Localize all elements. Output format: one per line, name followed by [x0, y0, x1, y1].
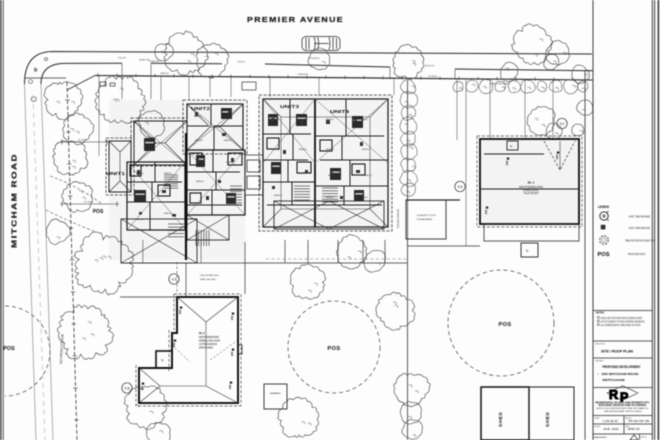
party wall units 1-2 — [185, 133, 187, 260]
svg-text:TREE PROTECTION ZONE (TPZ): TREE PROTECTION ZONE (TPZ) — [625, 239, 655, 242]
svg-text:BED: BED — [364, 175, 373, 177]
svg-text:MITCHAM ROAD: MITCHAM ROAD — [10, 153, 19, 248]
svg-text:BED: BED — [136, 219, 145, 221]
rooms unit 1 partitions — [127, 181, 182, 183]
svg-text:V.: V. — [526, 249, 529, 253]
logo — [607, 386, 638, 400]
wing upper-left — [131, 118, 187, 166]
svg-text:SHED: SHED — [498, 412, 504, 427]
svg-text:HW: HW — [178, 309, 182, 314]
svg-text:HW: HW — [230, 351, 234, 356]
svg-text:BED: BED — [299, 149, 308, 151]
trees mid yard — [337, 235, 367, 269]
svg-text:POS: POS — [598, 252, 611, 258]
svg-text:4.5: 4.5 — [172, 277, 177, 281]
paving edge dashed continuation — [266, 262, 407, 264]
block B roof inset — [263, 99, 281, 117]
shed east 1 — [481, 387, 529, 440]
svg-text:ETE DRIVE EX: ETE DRIVE EX — [309, 58, 320, 60]
crossover edges — [121, 63, 123, 99]
dark fittings block A — [137, 170, 140, 175]
meter box — [242, 82, 256, 90]
rooms unit 3 partitions — [263, 133, 311, 135]
BL1 mid wall — [480, 188, 579, 190]
svg-text:HW: HW — [555, 154, 559, 159]
stairs unit 2 upper — [230, 185, 242, 187]
tree ref circles — [557, 118, 567, 128]
unit 2 rear rooms block — [187, 150, 245, 215]
porch link to block B — [245, 155, 263, 195]
svg-text:HW: HW — [228, 384, 232, 389]
hedge shrubs along boundary — [453, 82, 463, 92]
dark beds block A — [144, 138, 155, 151]
svg-text:CROSSOVER: CROSSOVER — [237, 62, 245, 64]
car on road — [302, 37, 340, 51]
svg-text:UNIT1: UNIT1 — [106, 171, 126, 176]
svg-text:WEATHERBOARD: WEATHERBOARD — [199, 336, 219, 339]
svg-text:PALING FENCE: PALING FENCE — [396, 209, 400, 228]
BL1 rear V box — [521, 243, 538, 257]
block B walls — [263, 99, 388, 227]
east boundary — [584, 70, 586, 440]
fence to existing house — [408, 245, 481, 247]
svg-text:9.0: 9.0 — [560, 122, 565, 126]
svg-text:MITCHAM: MITCHAM — [603, 378, 626, 382]
svg-text:TP-02 OF 09: TP-02 OF 09 — [628, 419, 650, 423]
svg-text:9.8: 9.8 — [458, 185, 463, 189]
svg-text:DWELLING AND: DWELLING AND — [199, 340, 220, 343]
svg-text:DEMOLISHED: DEMOLISHED — [199, 347, 213, 349]
svg-text:500 MITCHAM ROAD: 500 MITCHAM ROAD — [602, 372, 640, 376]
tree near car — [308, 48, 330, 70]
svg-text:POS: POS — [3, 346, 15, 352]
hedge along internal fence — [400, 79, 415, 93]
svg-text:OSED SETBACK BOU: OSED SETBACK BOU — [200, 274, 219, 277]
BL1 porch slab — [484, 224, 579, 241]
svg-text:HW: HW — [140, 385, 144, 390]
svg-text:M.B. 4/23: M.B. 4/23 — [604, 427, 620, 431]
BL1 walls — [480, 139, 579, 224]
svg-text:BED: BED — [195, 140, 204, 142]
north site boundary — [95, 76, 592, 81]
svg-text:PRIVATE OPEN SPACE: PRIVATE OPEN SPACE — [628, 253, 645, 256]
svg-text:TELEPHONE 9873 0000: TELEPHONE 9873 0000 — [604, 411, 643, 413]
svg-text:REA LAWN CONCR: REA LAWN CONCR — [139, 59, 150, 62]
tree on boundary mid — [393, 44, 424, 79]
svg-text:SUITE 4 500 WHITEHORSE ROAD MI: SUITE 4 500 WHITEHORSE ROAD MITCHAM VIC — [597, 407, 650, 410]
svg-text:NOTES: NOTES — [596, 311, 604, 315]
BL2 eave dashed — [136, 294, 241, 406]
west boundary fence — [67, 82, 77, 440]
building tone wash — [109, 100, 245, 260]
svg-text:V.: V. — [161, 359, 164, 363]
svg-text:BED: BED — [326, 149, 335, 151]
paving edge below block A — [121, 262, 266, 264]
roof lines over unit1/2 rooms — [127, 162, 186, 230]
svg-text:BED: BED — [326, 197, 335, 199]
svg-text:BL.1: BL.1 — [528, 181, 535, 185]
svg-text:SITE / ROOF PLAN: SITE / ROOF PLAN — [601, 349, 633, 354]
roof diagonals over block B rooms — [263, 99, 315, 163]
rooms unit 2 partitions — [187, 125, 208, 127]
svg-text:LAYOUT SUBJECT TO FINAL WORKIN: LAYOUT SUBJECT TO FINAL WORKING DRAWINGS — [601, 321, 645, 324]
BL1 internal line top — [484, 153, 544, 155]
BL1 eave dashed — [477, 136, 582, 227]
dimension witness lines — [98, 76, 100, 157]
wet rooms unit 2 — [190, 153, 202, 165]
mitcham road kerbs — [25, 84, 37, 440]
svg-text:BED: BED — [226, 162, 235, 164]
page border left — [0, 0, 2, 440]
svg-text:R: R — [609, 388, 618, 402]
svg-text:HW: HW — [230, 315, 234, 320]
svg-text:AMENDMENT: AMENDMENT — [594, 436, 608, 439]
svg-text:BL.2: BL.2 — [199, 331, 205, 335]
BL1 valley dashed — [544, 141, 575, 170]
road kerb upper (Premier Avenue) — [25, 52, 593, 85]
rooms unit 4 partitions — [315, 135, 384, 137]
BL2 chimney — [238, 345, 242, 354]
svg-text:PROJECT: PROJECT — [596, 361, 605, 363]
svg-text:EXIST. TREE RETAINED: EXIST. TREE RETAINED — [629, 215, 650, 218]
legend tree symbol — [600, 212, 608, 220]
sw shed box — [406, 200, 446, 239]
BL1 tone wash — [480, 139, 579, 224]
party wall units 3-4 — [314, 99, 316, 227]
svg-text:DRG TITLE: DRG TITLE — [596, 344, 605, 346]
wing lower-left hip — [121, 219, 197, 263]
dark beds block B — [296, 114, 307, 126]
svg-text:BED: BED — [194, 116, 203, 118]
svg-text:9.8: 9.8 — [125, 386, 130, 390]
BL2 site lines — [120, 296, 177, 298]
svg-text:1:100 @ A3: 1:100 @ A3 — [603, 419, 618, 423]
svg-text:POS: POS — [327, 346, 340, 352]
svg-text:SHED: SHED — [545, 412, 551, 427]
stairs unit 3 — [294, 185, 310, 187]
svg-text:LEGEND: LEGEND — [598, 205, 609, 209]
svg-text:6.0m: 6.0m — [84, 202, 93, 204]
trees west side — [44, 82, 83, 120]
svg-text:POS: POS — [498, 322, 511, 328]
shed east 2 — [529, 387, 574, 440]
svg-text:RETAIN EXIST: RETAIN EXIST — [149, 60, 160, 63]
svg-text:SHED: SHED — [270, 393, 282, 395]
svg-text:NCE GARDEN A: NCE GARDEN A — [428, 75, 438, 78]
svg-text:UNIT4: UNIT4 — [330, 109, 350, 114]
svg-text:NDARY LEVEL DATU: NDARY LEVEL DATU — [200, 278, 216, 281]
svg-text:BED: BED — [272, 149, 281, 151]
legend paving symbol — [601, 225, 606, 230]
stairs unit 4 — [322, 187, 338, 189]
svg-text:BED: BED — [274, 195, 283, 197]
title block frame — [592, 0, 594, 440]
internal fence line — [407, 80, 409, 440]
svg-text:BED: BED — [362, 149, 371, 151]
trees top right cluster — [511, 24, 552, 65]
trees right of site — [527, 107, 555, 136]
svg-text:4.0m: 4.0m — [78, 140, 87, 142]
wing west narrow — [106, 138, 134, 195]
svg-text:PREMIER AVENUE: PREMIER AVENUE — [247, 15, 344, 24]
drive connector lines — [142, 240, 144, 263]
svg-text:UNIT2: UNIT2 — [191, 106, 211, 111]
garden bed dashed edges — [50, 176, 102, 204]
block B eave outline — [259, 95, 392, 231]
svg-text:V.: V. — [510, 145, 513, 149]
svg-text:E ESTABLISHMENT: E ESTABLISHMENT — [417, 218, 433, 221]
POS circle centre yard — [288, 301, 380, 393]
BL1 V box — [507, 141, 518, 150]
dark fittings block B — [271, 118, 275, 122]
block B rear alfresco wing — [274, 201, 384, 229]
BL2 roof lines — [177, 297, 206, 322]
west boundary ticks — [65, 99, 69, 101]
svg-text:BED: BED — [299, 173, 308, 175]
setback dimension lines west — [60, 141, 109, 143]
svg-text:BED: BED — [164, 213, 173, 215]
trees top left cluster — [164, 31, 208, 75]
svg-text:drawn: drawn — [595, 426, 600, 428]
POS circle west (partial) — [5, 306, 50, 396]
unit 1 rooms block — [127, 162, 185, 230]
svg-text:ER PALING FE: ER PALING FE — [298, 73, 308, 76]
svg-text:BUILDING DESIGN AND PLANNING: BUILDING DESIGN AND PLANNING — [599, 404, 647, 407]
svg-text:POS: POS — [93, 209, 104, 215]
svg-text:job no: job no — [640, 437, 647, 439]
svg-text:CHANNEL TIMB: CHANNEL TIMB — [160, 72, 169, 75]
svg-text:LEVELS AND CONTOURS FROM LICEN: LEVELS AND CONTOURS FROM LICENSED SURVEY — [601, 317, 643, 320]
svg-text:OUTBUILDINGS: OUTBUILDINGS — [199, 344, 217, 346]
legend tpz symbol — [600, 236, 609, 245]
svg-text:HW: HW — [505, 160, 509, 165]
pergola posts — [284, 240, 286, 263]
corner splay boundary — [67, 76, 95, 91]
svg-text:M SURVEY TITLE R: M SURVEY TITLE R — [417, 215, 436, 217]
BL2 V box — [156, 351, 172, 368]
stairs unit 1 — [164, 174, 178, 176]
road kerb lower segments — [41, 63, 122, 84]
svg-text:ALL DIMENSIONS CHECKED ON SITE: ALL DIMENSIONS CHECKED ON SITE — [601, 324, 641, 327]
unit 2 tower wing — [183, 100, 247, 154]
POS circle east yard — [448, 270, 554, 376]
svg-text:BED: BED — [196, 181, 205, 183]
page border right — [654, 0, 656, 440]
svg-text:HW: HW — [172, 342, 176, 347]
small shed centre — [264, 384, 287, 409]
svg-text:EXIST. TREE REMOVED: EXIST. TREE REMOVED — [629, 227, 650, 230]
wing lower-centre hip — [187, 215, 229, 240]
BL2 walls — [139, 297, 238, 403]
svg-text:ISTING TREE: ISTING TREE — [118, 58, 126, 60]
canopy over building top-left — [95, 76, 146, 123]
svg-text:•: • — [598, 372, 599, 376]
svg-text:HW: HW — [484, 209, 488, 214]
svg-text:REMOVED PROP: REMOVED PROP — [425, 66, 435, 68]
svg-text:TILE ROOF: TILE ROOF — [524, 192, 540, 195]
stairs unit 2 — [195, 230, 197, 246]
trees on fence bottom — [394, 373, 430, 406]
svg-text:PROPOSED DEVELOPMENT: PROPOSED DEVELOPMENT — [603, 365, 641, 369]
svg-text:APR 23: APR 23 — [628, 427, 641, 431]
svg-text:BED: BED — [224, 140, 233, 142]
